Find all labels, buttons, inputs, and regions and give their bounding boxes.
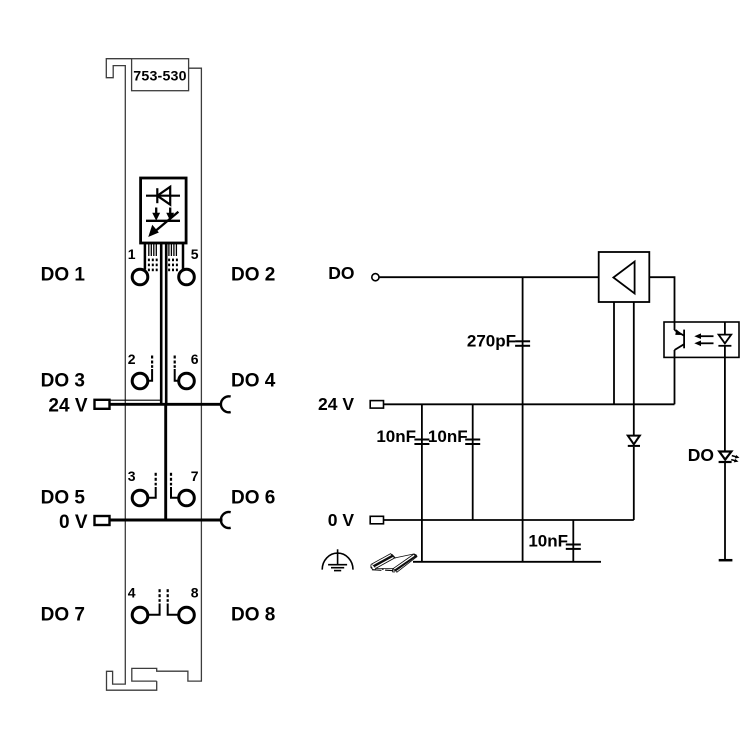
0V rail wire — [384, 519, 634, 521]
svg-text:DO 2: DO 2 — [231, 265, 275, 286]
svg-text:1: 1 — [128, 246, 136, 262]
svg-text:24 V: 24 V — [318, 394, 354, 414]
pin 2/6 dashes — [151, 356, 176, 368]
wire bundle below LED box — [145, 243, 183, 270]
svg-text:DO 5: DO 5 — [41, 487, 86, 508]
svg-text:24 V: 24 V — [48, 396, 87, 417]
LED DO wire — [724, 462, 726, 560]
svg-text:4: 4 — [128, 584, 136, 600]
24V rail wire — [384, 403, 675, 405]
diode D1 wire lower — [633, 447, 635, 520]
LED DO terminal bar — [719, 559, 733, 562]
diode D1 — [628, 436, 640, 446]
opto LED — [718, 322, 731, 452]
LED DO light arrows — [731, 456, 737, 461]
pin 3 circle — [132, 490, 148, 506]
10nF capacitor 2 wire — [472, 404, 474, 520]
pin 7 circle — [179, 490, 195, 506]
pin 5 circle — [179, 269, 195, 285]
svg-text:2: 2 — [128, 351, 136, 367]
optocoupler box — [664, 322, 739, 357]
24V wire — [110, 403, 221, 406]
capacitor 10nF 2 — [465, 440, 480, 445]
0V wire — [110, 519, 223, 522]
0V socket arc — [221, 512, 231, 528]
wire amp bottom right — [633, 302, 635, 404]
svg-text:DO: DO — [688, 445, 714, 465]
svg-text:0 V: 0 V — [328, 510, 355, 530]
svg-text:0 V: 0 V — [59, 512, 88, 533]
opto phototransistor — [675, 322, 685, 404]
internal bus double line — [161, 243, 166, 520]
svg-text:DO 1: DO 1 — [41, 265, 86, 286]
pin 3 connector — [147, 487, 179, 498]
svg-text:DO: DO — [328, 263, 354, 283]
diode D1 wire upper — [633, 404, 635, 435]
svg-text:270pF: 270pF — [467, 332, 516, 351]
earth ground symbol — [322, 549, 353, 570]
pin 8 circle — [179, 607, 195, 623]
svg-text:5: 5 — [191, 246, 199, 262]
pin 4 connector — [147, 604, 179, 615]
LED box photo symbol — [146, 208, 180, 237]
svg-text:DO 7: DO 7 — [41, 604, 85, 625]
pin 4/8 dashes — [159, 589, 169, 602]
24V thin line — [110, 399, 161, 401]
pin 1 circle — [132, 269, 148, 285]
270pF branch wire — [522, 277, 524, 562]
pin 4 circle — [132, 607, 148, 623]
0V rail terminal — [370, 516, 383, 524]
wire amp output — [649, 277, 674, 322]
svg-text:10nF: 10nF — [428, 427, 468, 446]
bundle dots — [148, 259, 178, 272]
svg-text:8: 8 — [191, 584, 199, 600]
pin 2 connector — [147, 369, 179, 381]
ground rail wire — [413, 561, 601, 563]
24V socket arc — [221, 396, 231, 412]
10nF capacitor 1 wire — [421, 404, 423, 562]
module 753-530 outline — [106, 59, 201, 691]
svg-text:7: 7 — [191, 468, 199, 484]
amplifier box U1 — [599, 252, 650, 302]
wire DO to amplifier — [379, 276, 599, 278]
amplifier triangle — [613, 262, 634, 294]
capacitor 270pF — [515, 341, 530, 346]
DIN carrier rail symbol — [371, 554, 417, 573]
svg-text:DO 6: DO 6 — [231, 487, 275, 508]
svg-text:10nF: 10nF — [376, 427, 416, 446]
LED indicator box U-LED — [141, 178, 187, 243]
opto light arrows — [698, 336, 714, 343]
svg-text:3: 3 — [128, 468, 136, 484]
wire amp bottom left — [613, 302, 615, 404]
LED box diode symbol — [146, 187, 180, 205]
pin 2 circle — [132, 373, 148, 389]
capacitor 10nF 1 — [414, 440, 429, 445]
capacitor 10nF 3 — [566, 545, 581, 549]
10nF capacitor 3 wire — [572, 520, 574, 562]
svg-text:DO 4: DO 4 — [231, 370, 276, 391]
DO terminal circle — [372, 274, 379, 281]
svg-text:10nF: 10nF — [528, 532, 568, 551]
label box 753-530 — [132, 59, 189, 91]
pin 3/7 dashes — [155, 473, 172, 486]
pin 6 circle — [179, 373, 195, 389]
svg-text:DO 3: DO 3 — [41, 370, 85, 391]
svg-text:DO 8: DO 8 — [231, 604, 275, 625]
svg-text:6: 6 — [191, 351, 199, 367]
24V rail terminal — [370, 401, 383, 409]
svg-text:753-530: 753-530 — [133, 69, 186, 85]
